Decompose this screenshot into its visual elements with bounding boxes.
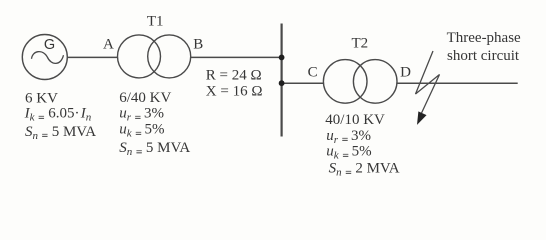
svg-text:Three-phase: Three-phase <box>447 30 521 46</box>
svg-text:R = 24 Ω: R = 24 Ω <box>206 67 262 83</box>
svg-text:6 KV: 6 KV <box>25 90 58 106</box>
wire T2 to fault (node D) <box>397 82 518 84</box>
wire bus to T2 (node C) <box>282 82 324 84</box>
svg-text:A: A <box>103 37 114 53</box>
svg-text:B: B <box>193 37 203 53</box>
svg-text:Ik = 6.05· In: Ik = 6.05· In <box>24 106 92 124</box>
transformer T1 primary circle <box>118 35 161 78</box>
bus junction dot upper <box>279 55 285 61</box>
svg-text:X = 16 Ω: X = 16 Ω <box>206 83 263 99</box>
generator sine-wave symbol <box>32 52 64 64</box>
svg-text:D: D <box>400 65 411 81</box>
svg-text:T1: T1 <box>147 14 164 30</box>
bus junction dot lower <box>279 80 285 86</box>
svg-text:uk = 5%: uk = 5% <box>326 143 371 161</box>
svg-text:uk = 5%: uk = 5% <box>119 122 164 140</box>
svg-text:T2: T2 <box>352 35 369 51</box>
short-circuit arrowhead <box>418 113 425 123</box>
wire T1 to bus (node B) <box>191 56 282 58</box>
svg-text:6/40 KV: 6/40 KV <box>119 90 171 106</box>
busbar vertical line <box>281 24 283 137</box>
svg-text:C: C <box>308 64 318 80</box>
short-circuit lightning bolt <box>416 51 440 117</box>
wire generator to T1 (node A) <box>67 56 117 58</box>
transformer T1 secondary circle <box>148 35 191 78</box>
svg-text:G: G <box>44 37 55 53</box>
svg-text:short circuit: short circuit <box>447 48 520 64</box>
generator G circle <box>22 35 67 80</box>
svg-text:40/10 KV: 40/10 KV <box>325 112 385 128</box>
transformer T2 primary circle <box>323 60 367 104</box>
transformer T2 secondary circle <box>353 60 397 104</box>
